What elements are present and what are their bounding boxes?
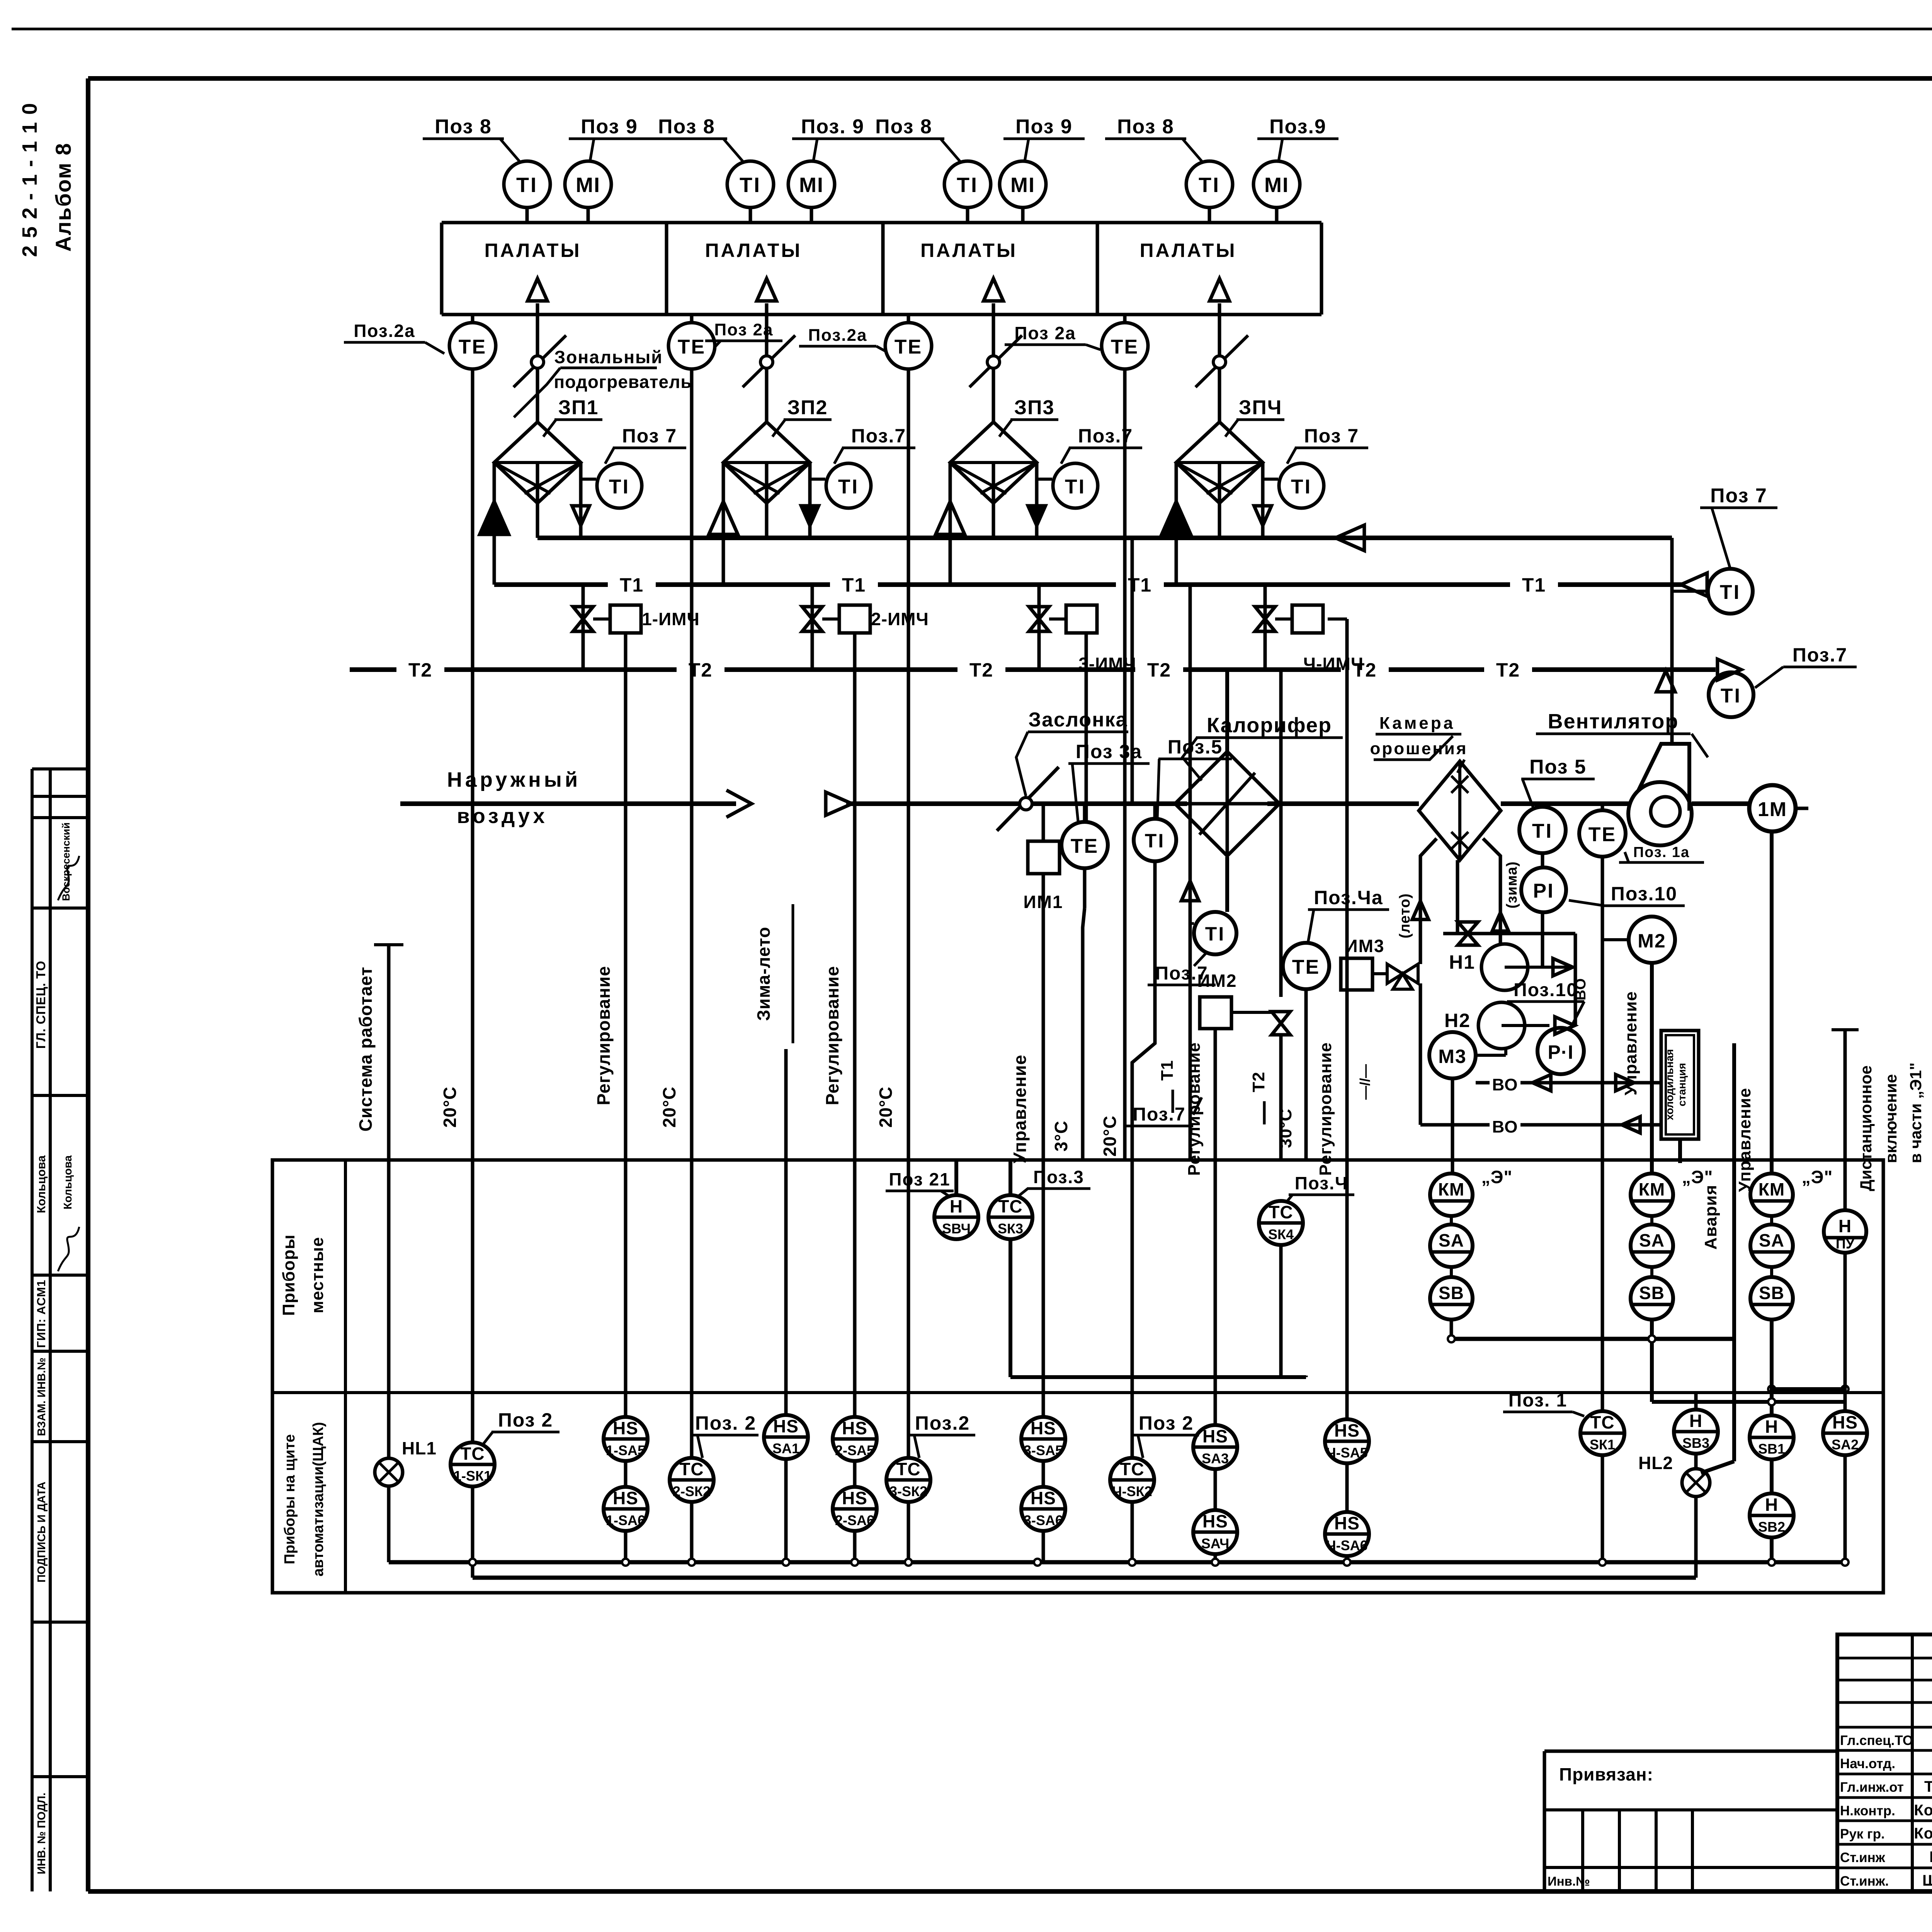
svg-text:ТЕ: ТЕ xyxy=(1588,823,1616,846)
svg-text:ВЗАМ. ИНВ.№: ВЗАМ. ИНВ.№ xyxy=(36,1357,48,1436)
svg-text:Н.контр.: Н.контр. xyxy=(1840,1803,1895,1818)
svg-text:Т1: Т1 xyxy=(842,574,866,596)
svg-text:Нач.отд.: Нач.отд. xyxy=(1840,1756,1895,1771)
svg-text:ТЕ: ТЕ xyxy=(1292,956,1320,978)
svg-text:3-SК2: 3-SК2 xyxy=(889,1483,927,1499)
svg-text:Т2: Т2 xyxy=(689,659,713,681)
svg-text:SА: SА xyxy=(1759,1230,1784,1250)
svg-text:Ст.инж.: Ст.инж. xyxy=(1840,1874,1889,1889)
svg-text:ПАЛАТЫ: ПАЛАТЫ xyxy=(1140,240,1237,261)
svg-text:20°С: 20°С xyxy=(440,1087,460,1128)
svg-text:Поз. 2: Поз. 2 xyxy=(695,1412,756,1434)
svg-text:Кольцова: Кольцова xyxy=(62,1155,74,1209)
svg-text:ТI: ТI xyxy=(1720,581,1741,604)
svg-text:Вентилятор: Вентилятор xyxy=(1548,710,1679,733)
svg-text:HS: HS xyxy=(1031,1488,1056,1508)
svg-text:Зима-лето: Зима-лето xyxy=(753,927,774,1021)
svg-text:Зональный: Зональный xyxy=(554,347,663,367)
svg-text:SВЧ: SВЧ xyxy=(942,1221,971,1236)
svg-text:Гл.инж.от: Гл.инж.от xyxy=(1840,1780,1904,1795)
svg-text:20°С: 20°С xyxy=(876,1087,896,1128)
svg-text:ПУ: ПУ xyxy=(1836,1236,1855,1252)
svg-text:Гл.спец.ТО: Гл.спец.ТО xyxy=(1840,1733,1913,1748)
svg-text:Поз 7: Поз 7 xyxy=(622,425,677,447)
svg-text:2-SА5: 2-SА5 xyxy=(835,1442,874,1458)
svg-text:ТI: ТI xyxy=(740,173,761,197)
svg-text:HS: HS xyxy=(1202,1426,1228,1446)
svg-text:Поз 8: Поз 8 xyxy=(875,116,932,138)
svg-text:ТС: ТС xyxy=(460,1444,485,1464)
svg-text:Ч-SК2: Ч-SК2 xyxy=(1112,1483,1152,1499)
svg-text:Поз.7: Поз.7 xyxy=(1793,644,1847,666)
svg-text:HS: HS xyxy=(613,1488,638,1508)
svg-text:3-SА5: 3-SА5 xyxy=(1024,1442,1063,1458)
svg-text:Н: Н xyxy=(950,1196,963,1216)
svg-text:2 5 2 - 1 - 1 1 0: 2 5 2 - 1 - 1 1 0 xyxy=(18,102,41,257)
svg-text:Поз 2а: Поз 2а xyxy=(1014,323,1076,343)
svg-text:ТС: ТС xyxy=(896,1459,920,1479)
svg-text:ПАЛАТЫ: ПАЛАТЫ xyxy=(705,240,802,261)
svg-text:Ч-SА5: Ч-SА5 xyxy=(1326,1445,1367,1461)
svg-text:Поз 21: Поз 21 xyxy=(889,1169,950,1189)
svg-text:подогреватель: подогреватель xyxy=(554,372,692,392)
svg-text:Регулирование: Регулирование xyxy=(822,966,842,1105)
svg-text:Кольцова: Кольцова xyxy=(34,1155,48,1213)
svg-text:ТI: ТI xyxy=(609,476,630,498)
svg-text:Н: Н xyxy=(1765,1495,1778,1515)
svg-text:Поз 2: Поз 2 xyxy=(1139,1412,1194,1434)
svg-text:ГЛ. СПЕЦ. ТО: ГЛ. СПЕЦ. ТО xyxy=(34,961,48,1049)
svg-text:HS: HS xyxy=(842,1488,867,1508)
svg-text:Поз 7: Поз 7 xyxy=(1710,485,1767,507)
svg-text:1-SК1: 1-SК1 xyxy=(454,1468,492,1484)
svg-text:HS: HS xyxy=(1334,1420,1360,1440)
svg-text:SВ3: SВ3 xyxy=(1682,1435,1709,1451)
svg-text:Поз.Ч: Поз.Ч xyxy=(1295,1173,1349,1193)
svg-text:ТI: ТI xyxy=(1199,173,1220,197)
svg-text:Регулирование: Регулирование xyxy=(1185,1042,1204,1176)
svg-text:в части „Э1": в части „Э1" xyxy=(1906,1063,1925,1163)
svg-text:30°С: 30°С xyxy=(1276,1109,1295,1148)
svg-text:ТС: ТС xyxy=(679,1459,704,1479)
svg-text:SА3: SА3 xyxy=(1202,1451,1229,1466)
svg-text:20°С: 20°С xyxy=(659,1087,679,1128)
svg-text:Поз 2: Поз 2 xyxy=(498,1409,553,1431)
svg-text:холодильная: холодильная xyxy=(1663,1049,1675,1120)
svg-text:ИМ3: ИМ3 xyxy=(1345,936,1385,956)
svg-text:Ст.инж: Ст.инж xyxy=(1840,1850,1886,1865)
svg-text:Н: Н xyxy=(1689,1411,1702,1431)
svg-text:ТЕ: ТЕ xyxy=(678,336,706,358)
svg-text:Н: Н xyxy=(1838,1216,1852,1236)
svg-text:КМ: КМ xyxy=(1639,1179,1665,1199)
svg-text:HS: HS xyxy=(1334,1513,1360,1533)
svg-text:HS: HS xyxy=(1031,1418,1056,1438)
svg-text:Поз.9: Поз.9 xyxy=(1269,116,1327,138)
svg-text:ТЕ: ТЕ xyxy=(1111,336,1139,358)
svg-text:РI: РI xyxy=(1533,880,1554,902)
svg-text:Поз.10: Поз.10 xyxy=(1514,980,1578,1000)
svg-text:МI: МI xyxy=(1264,173,1289,197)
svg-text:SК3: SК3 xyxy=(998,1221,1023,1236)
svg-text:HL1: HL1 xyxy=(402,1438,437,1458)
svg-text:Поз. 1: Поз. 1 xyxy=(1509,1390,1567,1411)
svg-text:20°С: 20°С xyxy=(1100,1116,1120,1157)
svg-text:SА: SА xyxy=(1639,1230,1665,1250)
svg-text:Т2: Т2 xyxy=(1353,659,1377,681)
svg-text:Регулирование: Регулирование xyxy=(594,966,614,1105)
svg-text:КМ: КМ xyxy=(1438,1179,1464,1199)
svg-text:Поз 8: Поз 8 xyxy=(435,116,492,138)
svg-text:HS: HS xyxy=(1202,1511,1228,1531)
svg-text:ПАЛАТЫ: ПАЛАТЫ xyxy=(485,240,582,261)
svg-text:SВ: SВ xyxy=(1639,1283,1665,1303)
svg-text:ТI: ТI xyxy=(957,173,978,197)
svg-text:ТЕ: ТЕ xyxy=(895,336,922,358)
svg-text:ВО: ВО xyxy=(1492,1075,1518,1094)
svg-text:Кожаринова: Кожаринова xyxy=(1914,1802,1932,1819)
svg-text:Поз.2: Поз.2 xyxy=(915,1412,970,1434)
svg-text:Поз.7: Поз.7 xyxy=(1133,1104,1185,1125)
svg-text:2-SК2: 2-SК2 xyxy=(673,1483,711,1499)
svg-text:Поз. 9: Поз. 9 xyxy=(801,116,864,138)
svg-text:МI: МI xyxy=(576,173,600,197)
svg-text:SА2: SА2 xyxy=(1832,1437,1859,1452)
svg-text:ТI: ТI xyxy=(1145,830,1165,852)
svg-text:М2: М2 xyxy=(1638,930,1666,952)
svg-text:HS: HS xyxy=(1832,1412,1858,1432)
svg-text:2-SА6: 2-SА6 xyxy=(835,1512,874,1528)
svg-text:ТI: ТI xyxy=(1291,476,1312,498)
svg-text:Поз.3: Поз.3 xyxy=(1033,1167,1084,1187)
svg-text:Поз 8: Поз 8 xyxy=(658,116,715,138)
svg-text:ТС: ТС xyxy=(1269,1202,1293,1222)
svg-text:Управление: Управление xyxy=(1010,1054,1030,1163)
svg-text:HS: HS xyxy=(773,1416,799,1436)
svg-text:„Э": „Э" xyxy=(1682,1167,1713,1187)
svg-text:Кожаринова: Кожаринова xyxy=(1914,1825,1932,1842)
svg-text:Макеева: Макеева xyxy=(1929,1849,1932,1866)
svg-text:местные: местные xyxy=(308,1237,327,1313)
svg-text:ТI: ТI xyxy=(838,476,859,498)
svg-text:Поз 9: Поз 9 xyxy=(581,116,638,138)
svg-text:Воскресенский: Воскресенский xyxy=(60,822,72,901)
svg-text:HL2: HL2 xyxy=(1638,1453,1673,1473)
svg-text:Поз 7: Поз 7 xyxy=(1304,425,1359,447)
svg-text:1-SА5: 1-SА5 xyxy=(606,1442,645,1458)
svg-text:воздух: воздух xyxy=(457,804,548,828)
svg-text:(зима): (зима) xyxy=(1504,861,1520,908)
svg-text:1М: 1М xyxy=(1758,798,1787,821)
svg-text:МI: МI xyxy=(799,173,824,197)
svg-text:Заслонка: Заслонка xyxy=(1029,709,1128,731)
svg-text:Т2: Т2 xyxy=(408,659,432,681)
svg-text:ЗП3: ЗП3 xyxy=(1014,396,1055,419)
svg-text:SА1: SА1 xyxy=(772,1440,799,1456)
svg-text:SАЧ: SАЧ xyxy=(1201,1536,1230,1551)
svg-text:ТЕ: ТЕ xyxy=(1071,835,1099,857)
svg-text:SА: SА xyxy=(1439,1230,1464,1250)
svg-text:(лето): (лето) xyxy=(1397,893,1413,939)
svg-text:Поз 5: Поз 5 xyxy=(1529,756,1587,778)
svg-text:Шиканова: Шиканова xyxy=(1922,1872,1932,1889)
svg-text:Рук гр.: Рук гр. xyxy=(1840,1827,1885,1842)
svg-text:Поз.10: Поз.10 xyxy=(1611,883,1677,905)
svg-text:Поз 2а: Поз 2а xyxy=(714,320,774,339)
svg-text:ТI: ТI xyxy=(1065,476,1086,498)
svg-text:Система работает: Система работает xyxy=(355,966,376,1131)
svg-text:ТI: ТI xyxy=(1721,685,1742,707)
svg-text:Поз. 1а: Поз. 1а xyxy=(1633,844,1690,861)
svg-text:2-ИМЧ: 2-ИМЧ xyxy=(871,609,929,629)
svg-text:Поз.2а: Поз.2а xyxy=(808,326,867,345)
svg-text:орошения: орошения xyxy=(1370,739,1468,758)
svg-text:ЗПЧ: ЗПЧ xyxy=(1239,396,1282,419)
svg-text:Камера: Камера xyxy=(1379,714,1455,733)
svg-text:Управление: Управление xyxy=(1735,1088,1754,1192)
svg-text:Авария: Авария xyxy=(1701,1185,1720,1250)
svg-text:МI: МI xyxy=(1010,173,1035,197)
svg-text:Н: Н xyxy=(1765,1417,1778,1437)
svg-text:Н2: Н2 xyxy=(1444,1010,1471,1031)
svg-text:Н1: Н1 xyxy=(1449,951,1475,973)
svg-text:Ч-SА6: Ч-SА6 xyxy=(1326,1537,1367,1553)
svg-text:ТС: ТС xyxy=(1120,1459,1144,1479)
svg-text:ТЕ: ТЕ xyxy=(459,336,486,358)
svg-text:ПОДПИСЬ И ДАТА: ПОДПИСЬ И ДАТА xyxy=(36,1481,48,1582)
svg-text:Регулирование: Регулирование xyxy=(1316,1042,1335,1176)
svg-text:Т2: Т2 xyxy=(1496,659,1520,681)
svg-text:SВ: SВ xyxy=(1439,1283,1464,1303)
svg-text:SК4: SК4 xyxy=(1268,1226,1294,1242)
svg-text:Поз.2а: Поз.2а xyxy=(354,321,415,341)
svg-text:М3: М3 xyxy=(1438,1046,1466,1067)
svg-text:Поз 9: Поз 9 xyxy=(1015,116,1073,138)
svg-text:Р·I: Р·I xyxy=(1548,1041,1574,1063)
svg-text:Торгашов: Торгашов xyxy=(1924,1778,1932,1795)
svg-text:HS: HS xyxy=(842,1418,867,1438)
svg-text:3-SА6: 3-SА6 xyxy=(1024,1512,1063,1528)
svg-text:ТI: ТI xyxy=(516,173,538,197)
svg-text:SВ: SВ xyxy=(1759,1283,1784,1303)
svg-text:„Э": „Э" xyxy=(1481,1167,1513,1187)
svg-text:ТС: ТС xyxy=(1590,1412,1614,1432)
svg-text:Поз 8: Поз 8 xyxy=(1117,116,1174,138)
svg-text:HS: HS xyxy=(613,1418,638,1438)
svg-text:Т1: Т1 xyxy=(1158,1060,1177,1080)
svg-text:Привязан:: Привязан: xyxy=(1559,1764,1653,1784)
svg-text:Т2: Т2 xyxy=(1249,1071,1268,1092)
svg-text:ИНВ. № ПОДЛ.: ИНВ. № ПОДЛ. xyxy=(36,1793,48,1874)
svg-text:КМ: КМ xyxy=(1759,1179,1785,1199)
svg-text:Приборы: Приборы xyxy=(279,1234,298,1316)
svg-text:ТI: ТI xyxy=(1205,923,1225,945)
svg-text:ПАЛАТЫ: ПАЛАТЫ xyxy=(920,240,1017,261)
svg-text:Инв.№: Инв.№ xyxy=(1548,1874,1590,1888)
svg-text:ЗП2: ЗП2 xyxy=(787,396,828,419)
svg-text:Дистанционное: Дистанционное xyxy=(1857,1065,1875,1191)
svg-text:Поз.7: Поз.7 xyxy=(851,425,906,447)
svg-text:Приборы на щите: Приборы на щите xyxy=(282,1434,298,1565)
svg-text:ЗП1: ЗП1 xyxy=(558,396,599,419)
svg-text:1-SА6: 1-SА6 xyxy=(606,1512,645,1528)
svg-text:Наружный: Наружный xyxy=(447,768,581,791)
svg-text:ВО: ВО xyxy=(1492,1117,1518,1136)
svg-text:SВ2: SВ2 xyxy=(1758,1519,1785,1535)
svg-text:3°С: 3°С xyxy=(1051,1121,1071,1151)
svg-text:Альбом 8: Альбом 8 xyxy=(51,143,75,252)
svg-text:включение: включение xyxy=(1882,1074,1900,1163)
svg-text:Т2: Т2 xyxy=(969,659,993,681)
svg-text:—//—: —//— xyxy=(1357,1064,1373,1100)
svg-text:Т2: Т2 xyxy=(1147,659,1171,681)
svg-text:SВ1: SВ1 xyxy=(1758,1441,1785,1457)
svg-text:„Э": „Э" xyxy=(1802,1167,1833,1187)
svg-text:ИМ2: ИМ2 xyxy=(1197,971,1237,991)
svg-text:Т1: Т1 xyxy=(1522,574,1546,596)
svg-text:ТI: ТI xyxy=(1532,820,1553,842)
svg-text:ГИП: АСМ1: ГИП: АСМ1 xyxy=(34,1280,48,1348)
svg-text:SК1: SК1 xyxy=(1590,1437,1615,1452)
svg-text:Т1: Т1 xyxy=(620,574,644,596)
svg-text:ТС: ТС xyxy=(998,1196,1022,1216)
svg-text:Поз.Чa: Поз.Чa xyxy=(1314,887,1383,908)
svg-text:автоматизации(ЩАК): автоматизации(ЩАК) xyxy=(310,1422,327,1577)
svg-text:станция: станция xyxy=(1676,1063,1688,1107)
